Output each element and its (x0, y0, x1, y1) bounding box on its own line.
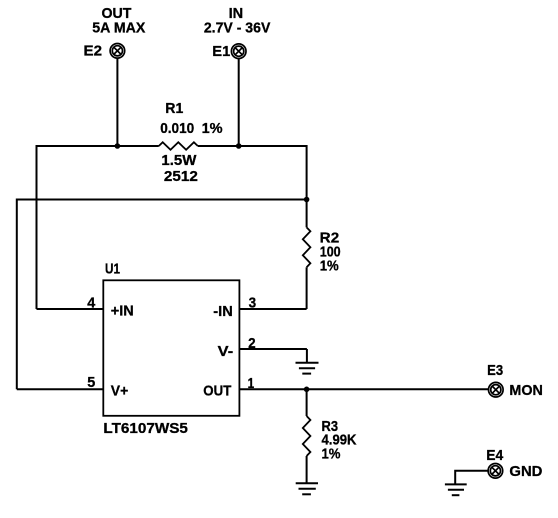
svg-text:-IN: -IN (213, 303, 233, 320)
wire pin4 feed (37, 308, 104, 310)
svg-text:OUT: OUT (203, 383, 231, 400)
svg-text:E4: E4 (486, 447, 504, 464)
svg-text:1%: 1% (202, 120, 223, 137)
svg-text:0.010: 0.010 (160, 120, 194, 137)
wire E2 drop (116, 58, 118, 146)
svg-text:MON: MON (509, 382, 543, 399)
wire R3 bottom (306, 456, 308, 483)
wire pin2 feed (239, 348, 307, 350)
junction dot OUT/R3 (304, 387, 310, 393)
junction dot E2/top rail (115, 143, 121, 149)
wire E4 to ground (455, 471, 488, 484)
svg-text:GND: GND (509, 463, 542, 480)
terminal E2 (110, 44, 125, 59)
ground (V- pin) (296, 349, 319, 374)
wire left rail 2 (16, 199, 18, 390)
resistor R1 (159, 142, 198, 150)
ground (E4) (445, 484, 467, 495)
junction dot E1/top rail (236, 143, 242, 149)
wire R2 bottom to pin3 (306, 267, 308, 309)
resistor R3 (303, 416, 311, 456)
ground (R3) (296, 483, 318, 494)
svg-text:5: 5 (87, 374, 95, 391)
svg-text:1%: 1% (320, 257, 339, 274)
svg-text:5A MAX: 5A MAX (92, 20, 145, 37)
svg-text:2512: 2512 (164, 168, 198, 185)
svg-text:LT6107WS5: LT6107WS5 (103, 420, 187, 437)
svg-text:4: 4 (87, 295, 96, 312)
wire R3 top (306, 389, 308, 416)
wire pin3 feed (239, 308, 306, 310)
terminal E1 (231, 44, 246, 59)
svg-text:E1: E1 (212, 43, 230, 60)
svg-text:V+: V+ (111, 383, 129, 400)
svg-text:V-: V- (218, 343, 234, 360)
wire right rail top (306, 145, 308, 227)
svg-text:3: 3 (249, 294, 257, 311)
resistor R2 (303, 227, 311, 267)
wire main top rail (37, 145, 307, 147)
op-amp U1 body (103, 280, 239, 416)
junction dot right rail / second rail (304, 197, 310, 203)
svg-text:U1: U1 (105, 260, 120, 277)
wire pin5 feed (17, 388, 104, 390)
wire second rail horizontal (17, 199, 307, 201)
svg-text:1%: 1% (322, 446, 341, 463)
svg-text:1.5W: 1.5W (161, 152, 197, 169)
svg-text:R1: R1 (165, 100, 183, 117)
svg-text:2.7V - 36V: 2.7V - 36V (204, 20, 271, 37)
wire OUT to E3 (239, 388, 488, 390)
svg-text:E2: E2 (84, 42, 103, 59)
terminal E3 (489, 382, 504, 397)
wire E1 drop (238, 59, 240, 147)
wire left rail 1 (36, 145, 38, 309)
terminal E4 (488, 464, 503, 479)
svg-text:E3: E3 (487, 362, 503, 379)
svg-text:+IN: +IN (111, 303, 134, 320)
